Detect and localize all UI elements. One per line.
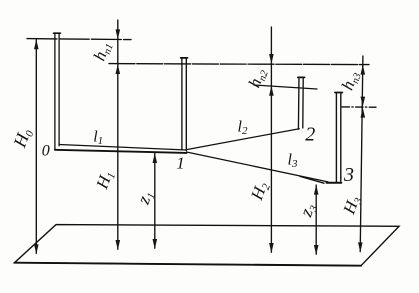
arrow H0 bottom down bbox=[34, 244, 39, 254]
arrow z1 bottom down bbox=[153, 239, 158, 249]
standpipe at outlet 2 bbox=[298, 77, 305, 129]
arrowheads bbox=[34, 29, 365, 255]
pipe l1 (node 0 to node 1) bbox=[55, 145, 187, 153]
datum plane bbox=[15, 225, 400, 266]
svg-text:hп2: hп2 bbox=[245, 65, 271, 91]
arrow H1 bottom down bbox=[116, 240, 121, 250]
outlet riser pipe at node 3 bbox=[335, 93, 343, 183]
svg-text:l1: l1 bbox=[93, 129, 103, 148]
elbow at node 3 bbox=[327, 182, 342, 184]
svg-text:H2: H2 bbox=[247, 179, 273, 204]
arrow z1 top up bbox=[153, 153, 158, 163]
arrow H0 top up bbox=[34, 39, 39, 49]
dimension line hp2 / H2 bbox=[270, 27, 272, 252]
level line piezometric head at node 1 bbox=[109, 64, 369, 65]
arrow H3 up at dashdot bbox=[361, 108, 366, 118]
dimension line hp3 / H3 bbox=[360, 56, 363, 252]
dash-dot outlet 3 level line bbox=[342, 106, 376, 108]
pipe l2 (node 1 to outlet 2) bbox=[187, 129, 300, 150]
dimension line H0 bbox=[35, 40, 37, 254]
svg-text:l2: l2 bbox=[238, 119, 248, 138]
arrow hp2 down at level 2 bbox=[269, 54, 274, 64]
standpipe piezometer at node 1 bbox=[181, 58, 188, 151]
level line piezometric head at outlet 2 bbox=[254, 85, 317, 89]
svg-text:3: 3 bbox=[343, 164, 354, 186]
arrow hp1/H1 up at level 2 bbox=[116, 64, 121, 74]
arrow z3 top up bbox=[314, 185, 319, 195]
dimension line z1 bbox=[154, 153, 156, 248]
arrow hp1 down at level 1 bbox=[116, 29, 121, 39]
svg-text:0: 0 bbox=[42, 142, 50, 159]
pipe l3 (node 1 to node 3) bbox=[187, 152, 329, 183]
svg-text:1: 1 bbox=[176, 153, 185, 172]
svg-text:2: 2 bbox=[305, 124, 315, 146]
arrow H2 bottom down bbox=[269, 243, 274, 253]
standpipe piezometer at node 0 bbox=[54, 33, 61, 150]
level line reservoir head (top water level) bbox=[27, 39, 131, 40]
arrow hp2/H2 up at level 3 bbox=[269, 86, 274, 96]
svg-text:H0: H0 bbox=[9, 125, 37, 151]
dimension line z3 bbox=[315, 185, 317, 254]
arrow z3 bottom down bbox=[314, 245, 319, 255]
svg-text:z3: z3 bbox=[295, 200, 320, 221]
dimension line hp1 / H1 bbox=[117, 20, 119, 249]
arrow hp3 down at dashdot bbox=[361, 97, 366, 107]
svg-text:hп1: hп1 bbox=[90, 39, 116, 64]
arrow H3 bottom down bbox=[358, 242, 363, 252]
svg-text:hп3: hп3 bbox=[338, 68, 364, 93]
svg-text:H1: H1 bbox=[92, 168, 118, 193]
arrow hp3 up at level 2 bbox=[361, 65, 366, 75]
svg-text:l3: l3 bbox=[288, 152, 298, 171]
